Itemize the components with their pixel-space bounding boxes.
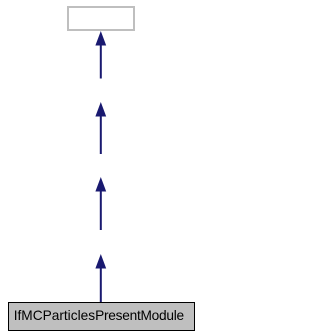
label text <box>14 309 184 323</box>
arrow 3 <box>95 177 106 230</box>
inheritance arrows <box>0 0 201 336</box>
arrow 4 (from derived box) <box>95 254 106 303</box>
arrow 2 <box>95 102 106 154</box>
base class box (empty, undocumented) <box>67 6 135 31</box>
arrow 1 (to base box) <box>95 31 106 79</box>
derived class box: IfMCParticlesPresentModule <box>8 302 195 331</box>
